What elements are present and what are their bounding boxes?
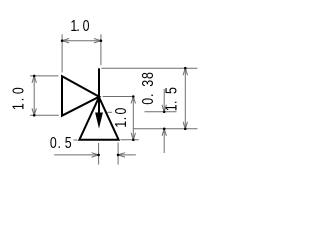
dim 0.5 right piece [118,154,136,156]
arrowhead top of 1.5 dim [183,68,187,75]
dim 0.5 left piece [54,154,98,156]
arrowhead bottom of 1.5 dim [183,122,187,129]
svg-text:1.0: 1.0 [111,107,129,127]
extension line x=101 (top dim right) [100,34,102,65]
extension line y=76 (left dim top) [30,75,59,77]
dim line top 1.0 [62,40,101,42]
extension line y=112 stub (arrowhead back, left piece) [108,111,113,113]
arrowhead top of inner dim [131,97,135,104]
svg-text:1.0: 1.0 [9,87,27,110]
arrowhead top of left dim [32,76,36,83]
extension line x=62 (top dim left) [61,34,63,72]
extension line y=112 (arrowhead back, right piece) [145,111,177,113]
solid arrowhead at conductor end [95,113,103,129]
extension line y=96.4 (apex level, right) [103,95,135,97]
dim line 1.5 [184,68,186,129]
arrowhead bottom of left dim [32,108,36,115]
small triangle (open arrowhead below) [79,97,118,140]
big triangle (open arrowhead symbol) [62,76,99,116]
svg-text:0.5: 0.5 [50,134,72,152]
extension line y=115 (left dim bottom) [30,114,59,116]
extension line y=139.8 (base, right) [121,139,139,141]
black dots at dimension arrow tips [33,39,187,156]
extension line y=68.2 (line top, right) [101,67,197,69]
dim line inner 1.0 [132,97,134,140]
arrowhead right of top dim [94,39,101,43]
extension line y=139.8 (base, left stub) [74,139,78,141]
extension line x=98.6 (below base center) [98,143,100,165]
arrowhead bottom of inner dim [131,133,135,140]
arrowhead left of top dim [62,39,69,43]
dim 0.38 upper outside arrow [163,89,165,112]
extension line x=118 (below base right corner) [117,143,119,165]
dim line left 1.0 [33,76,35,115]
extension line y=128.8 (line tip, right) [133,128,198,130]
vertical conductor line [98,68,100,122]
dim 0.38 lower outside arrow [163,129,165,153]
